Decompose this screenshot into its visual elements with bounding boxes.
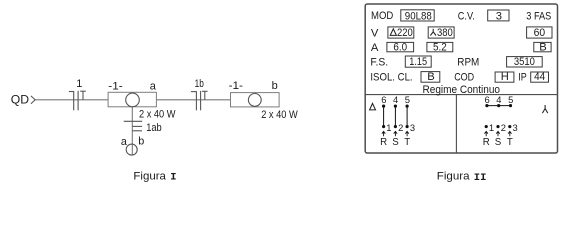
svg-text:T: T bbox=[507, 137, 513, 148]
svg-text:V: V bbox=[371, 27, 379, 39]
svg-text:3: 3 bbox=[513, 122, 518, 133]
svg-text:380: 380 bbox=[437, 27, 453, 39]
svg-text:2 x 40 W: 2 x 40 W bbox=[261, 109, 298, 121]
svg-text:3: 3 bbox=[410, 122, 415, 133]
svg-text:90L88: 90L88 bbox=[405, 10, 432, 22]
svg-text:H: H bbox=[501, 71, 509, 83]
svg-text:a: a bbox=[150, 81, 157, 93]
svg-text:RPM: RPM bbox=[457, 57, 479, 69]
svg-text:-1-: -1- bbox=[108, 81, 123, 93]
svg-text:Figura: Figura bbox=[133, 170, 166, 182]
svg-text:MOD: MOD bbox=[371, 10, 393, 22]
svg-text:F.S.: F.S. bbox=[370, 57, 388, 69]
svg-text:4: 4 bbox=[393, 94, 398, 105]
svg-text:R: R bbox=[380, 137, 387, 148]
svg-text:S: S bbox=[495, 137, 502, 148]
svg-text:5: 5 bbox=[508, 94, 513, 105]
svg-text:S: S bbox=[392, 137, 399, 148]
svg-text:4: 4 bbox=[496, 94, 501, 105]
svg-text:Figura: Figura bbox=[437, 171, 471, 183]
svg-text:220: 220 bbox=[397, 27, 413, 39]
svg-text:QD: QD bbox=[11, 92, 29, 106]
svg-text:R: R bbox=[483, 137, 490, 148]
svg-text:-1-: -1- bbox=[229, 80, 244, 92]
svg-text:B: B bbox=[427, 71, 434, 83]
svg-text:6: 6 bbox=[485, 94, 490, 105]
svg-text:C.V.: C.V. bbox=[458, 10, 475, 22]
svg-text:a: a bbox=[121, 136, 127, 148]
svg-text:1: 1 bbox=[489, 122, 494, 133]
svg-text:I: I bbox=[170, 172, 176, 184]
svg-text:1.15: 1.15 bbox=[409, 56, 427, 68]
svg-text:3 FAS: 3 FAS bbox=[526, 10, 551, 22]
svg-text:b: b bbox=[272, 80, 278, 92]
svg-text:2: 2 bbox=[398, 122, 403, 133]
svg-text:5.2: 5.2 bbox=[433, 42, 447, 54]
svg-text:3: 3 bbox=[496, 10, 502, 22]
svg-text:COD: COD bbox=[454, 71, 474, 83]
svg-text:1ab: 1ab bbox=[146, 122, 162, 134]
svg-text:A: A bbox=[371, 42, 379, 54]
svg-text:1: 1 bbox=[386, 122, 391, 133]
svg-text:44: 44 bbox=[534, 71, 545, 83]
svg-text:IP: IP bbox=[518, 71, 527, 83]
svg-text:ISOL. CL.: ISOL. CL. bbox=[370, 71, 412, 83]
svg-text:60: 60 bbox=[534, 27, 546, 39]
svg-text:6.0: 6.0 bbox=[393, 42, 407, 54]
svg-text:b: b bbox=[138, 135, 144, 147]
svg-text:2: 2 bbox=[501, 122, 506, 133]
svg-text:II: II bbox=[474, 172, 487, 184]
svg-text:5: 5 bbox=[405, 94, 410, 105]
svg-text:1b: 1b bbox=[195, 78, 204, 90]
svg-text:1: 1 bbox=[76, 78, 82, 90]
svg-text:B: B bbox=[539, 42, 546, 54]
svg-text:6: 6 bbox=[381, 94, 386, 105]
svg-text:3510: 3510 bbox=[514, 56, 535, 68]
svg-text:2 x 40 W: 2 x 40 W bbox=[139, 109, 176, 121]
svg-text:T: T bbox=[404, 137, 410, 148]
